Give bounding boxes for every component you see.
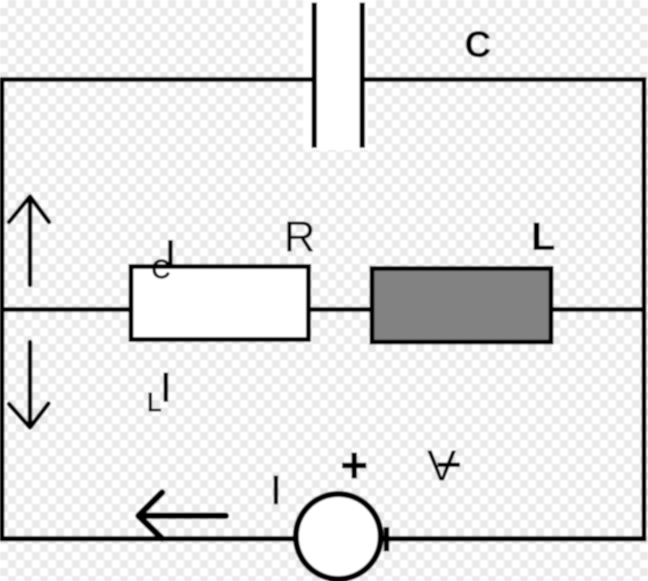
resistor R box — [131, 267, 309, 340]
svg-text:I: I — [160, 364, 172, 411]
capacitor C left plate — [312, 3, 317, 148]
svg-text:L: L — [531, 215, 555, 259]
voltage source V circle — [296, 494, 381, 579]
svg-text:I: I — [165, 232, 176, 278]
inductor L box — [372, 269, 551, 343]
wire: right border — [642, 77, 647, 542]
up arrow (left branch current) — [9, 197, 49, 286]
wire: top-left segment — [0, 77, 313, 82]
white backdrop behind capacitor gap — [303, 0, 368, 150]
down arrow (left branch current) — [9, 342, 49, 428]
minus terminal tick — [384, 527, 390, 552]
plus sign — [342, 453, 366, 479]
wire: middle segment between R and L — [309, 307, 371, 312]
wire: bottom — [0, 536, 646, 542]
svg-text:R: R — [284, 212, 316, 261]
wire: top-right segment — [362, 77, 647, 82]
wire: middle-left segment — [0, 307, 130, 312]
svg-text:C: C — [465, 24, 492, 65]
capacitor C right plate — [360, 3, 365, 148]
svg-text:I: I — [270, 467, 281, 513]
bottom current arrow pointing left — [139, 493, 226, 539]
wire: middle-right segment — [553, 307, 644, 312]
wire: left border — [0, 77, 4, 542]
